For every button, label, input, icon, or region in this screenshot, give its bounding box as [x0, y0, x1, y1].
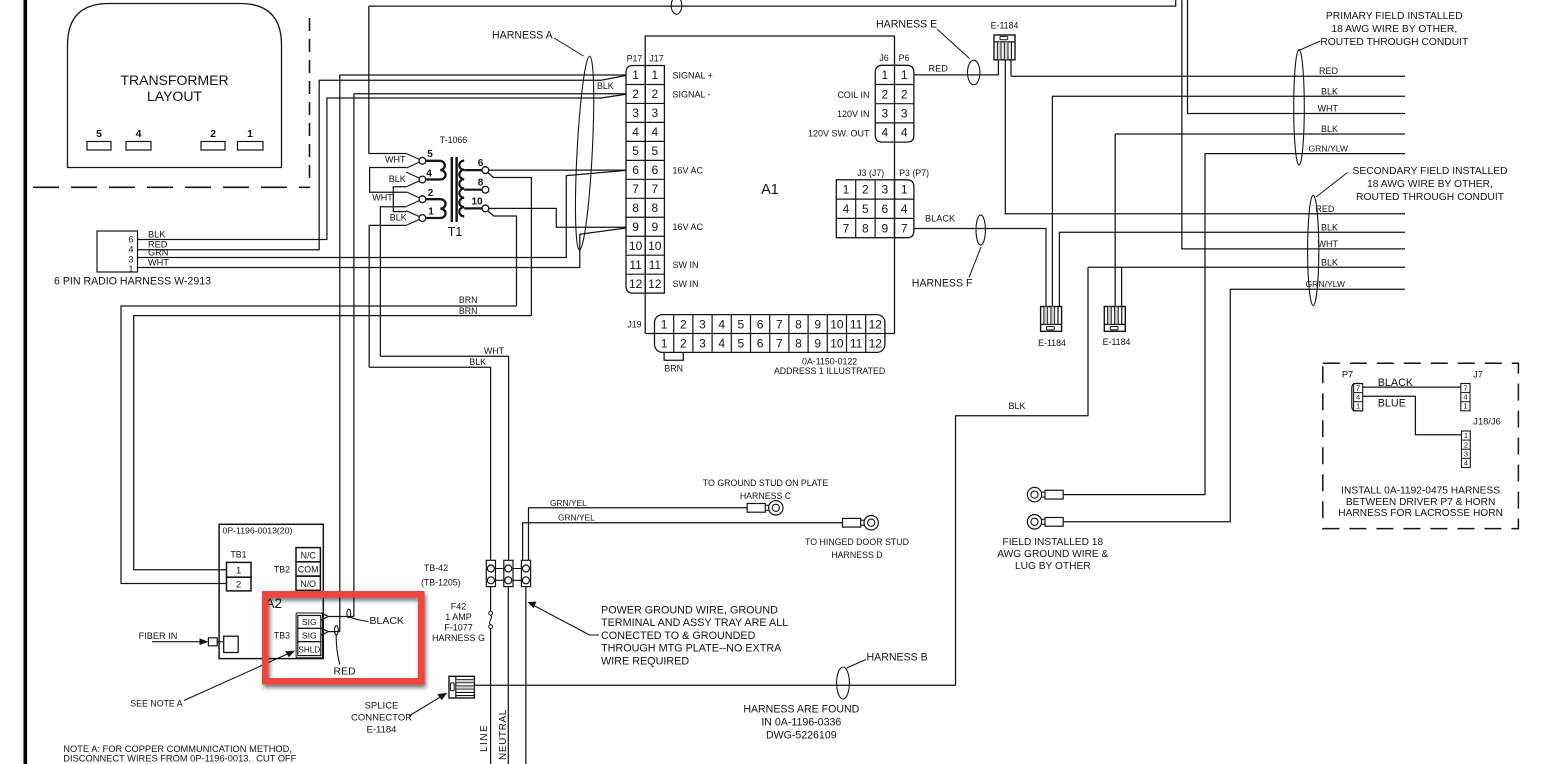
wire T1 pin10 lower to BRN riser: [488, 211, 517, 306]
svg-text:7: 7: [1463, 383, 1467, 392]
T1 core: [451, 157, 453, 222]
svg-text:2: 2: [680, 317, 687, 331]
svg-text:120V SW. OUT: 120V SW. OUT: [808, 128, 870, 138]
svg-text:3: 3: [881, 183, 888, 197]
svg-text:E-1184: E-1184: [367, 725, 397, 736]
svg-text:1: 1: [1356, 402, 1360, 411]
wire BLK primary field 2: [1115, 134, 1405, 307]
harness F oval: [976, 215, 985, 245]
svg-text:4: 4: [1356, 393, 1360, 402]
svg-text:THROUGH MTG PLATE--NO EXTRA: THROUGH MTG PLATE--NO EXTRA: [601, 643, 782, 655]
svg-text:NEUTRAL: NEUTRAL: [498, 709, 509, 760]
svg-text:5: 5: [862, 202, 869, 216]
wire BLK primary field: [1052, 96, 1405, 306]
svg-text:10: 10: [830, 336, 844, 350]
wire WHT T1 pin5 from top bus: [369, 6, 407, 153]
svg-text:GRN/YEL: GRN/YEL: [558, 513, 595, 523]
svg-text:TB2: TB2: [274, 564, 290, 574]
wire ground riser below TB-42: [525, 587, 527, 764]
svg-text:3: 3: [901, 107, 908, 121]
svg-text:18 AWG WIRE BY OTHER,: 18 AWG WIRE BY OTHER,: [1367, 179, 1493, 190]
svg-text:RED: RED: [929, 64, 949, 74]
svg-text:GRN/YEL: GRN/YEL: [550, 498, 587, 508]
svg-text:BLK: BLK: [1009, 401, 1026, 411]
svg-text:HARNESS E: HARNESS E: [876, 19, 937, 31]
svg-text:4: 4: [632, 125, 639, 139]
svg-text:J6: J6: [879, 53, 888, 63]
svg-text:BLK: BLK: [597, 81, 614, 91]
svg-text:6: 6: [757, 336, 764, 350]
svg-text:BLK: BLK: [469, 357, 486, 367]
module A2 box 0P-1196-0013: [219, 524, 323, 658]
svg-text:7: 7: [632, 182, 639, 196]
svg-text:7: 7: [901, 221, 908, 235]
dashed partition line vertical: [309, 18, 311, 183]
transformer slot 2: [201, 142, 225, 151]
svg-text:WHT: WHT: [1318, 239, 1339, 249]
svg-text:2: 2: [1464, 440, 1468, 449]
svg-text:3: 3: [651, 106, 658, 120]
svg-text:GRN/YLW: GRN/YLW: [1309, 144, 1349, 154]
svg-text:WHT: WHT: [372, 192, 393, 202]
svg-text:11: 11: [850, 336, 863, 350]
svg-text:2: 2: [210, 128, 216, 140]
svg-text:12: 12: [869, 336, 883, 350]
wire GRN/YLW primary field: [1064, 154, 1405, 495]
module A1 outline: [645, 36, 894, 334]
svg-text:WHT: WHT: [385, 155, 406, 165]
dashed partition line horizontal: [33, 186, 310, 188]
top bus wire to off-sheet: [369, 0, 1176, 6]
svg-text:120V IN: 120V IN: [837, 109, 870, 119]
ground lug harness D: [843, 518, 861, 527]
svg-text:9: 9: [651, 220, 658, 234]
svg-text:1: 1: [1463, 402, 1467, 411]
svg-text:WHT: WHT: [1318, 104, 1339, 114]
wire SIG1 to riser: [328, 616, 354, 618]
svg-text:1: 1: [661, 336, 668, 350]
svg-text:FIBER IN: FIBER IN: [139, 631, 178, 641]
svg-text:3: 3: [699, 336, 706, 350]
wire P17-2 to TB3 SIG riser: [354, 94, 626, 617]
wire GRN/YLW secondary field: [1064, 289, 1405, 522]
svg-text:6: 6: [651, 163, 658, 177]
svg-text:7: 7: [1356, 383, 1360, 392]
wire T1 pin6 to P17-6: [489, 169, 626, 171]
svg-text:J19: J19: [627, 320, 641, 330]
jumper BRN on J19 pins 1-2: [664, 352, 683, 360]
svg-text:A1: A1: [761, 182, 779, 198]
svg-text:3: 3: [882, 107, 889, 121]
wire BRN 2 to TB1-1: [134, 316, 532, 570]
svg-text:(TB-1205): (TB-1205): [421, 578, 461, 588]
svg-text:9: 9: [814, 317, 821, 331]
T1 primary winding 2-1: [426, 199, 446, 218]
svg-text:8: 8: [651, 201, 658, 215]
harness B oval: [837, 667, 850, 699]
svg-text:BLK: BLK: [389, 174, 406, 184]
drawing sheet border: [24, 0, 28, 764]
svg-text:DISCONNECT WIRES FROM 0P-1196-: DISCONNECT WIRES FROM 0P-1196-0013. CUT …: [63, 753, 296, 763]
svg-text:GRN/YLW: GRN/YLW: [1306, 279, 1346, 289]
svg-text:RED: RED: [334, 666, 357, 678]
TB3 SIG1 fork terminal: [321, 613, 328, 616]
svg-text:F-1077: F-1077: [444, 623, 473, 633]
T1 secondary winding: [459, 161, 464, 217]
connector J19: [663, 315, 885, 334]
wire RED primary field: [1011, 75, 1405, 77]
splice connector E-1184 top: [994, 35, 1015, 60]
svg-text:1: 1: [128, 264, 133, 274]
connector J6/P6: [875, 65, 894, 142]
svg-text:P17: P17: [627, 54, 643, 64]
svg-text:5: 5: [738, 336, 745, 350]
wire P17-1 to TB3 SIG riser: [340, 75, 626, 632]
svg-text:SPLICE: SPLICE: [365, 701, 399, 712]
svg-text:AWG GROUND WIRE &: AWG GROUND WIRE &: [997, 549, 1108, 560]
svg-text:TB1: TB1: [230, 550, 246, 560]
svg-text:WHT: WHT: [148, 258, 169, 268]
svg-text:BLK: BLK: [390, 213, 407, 223]
wire RED from P6-1: [914, 74, 999, 76]
svg-text:2: 2: [901, 87, 908, 101]
svg-text:4: 4: [1464, 459, 1468, 468]
svg-text:BRN: BRN: [664, 364, 683, 374]
svg-text:IN 0A-1196-0336: IN 0A-1196-0336: [761, 717, 841, 729]
svg-text:2: 2: [632, 87, 639, 101]
svg-text:LUG BY OTHER: LUG BY OTHER: [1015, 561, 1091, 572]
svg-text:9: 9: [632, 220, 639, 234]
wire BLK T1 pin1 down to A2: [369, 225, 406, 367]
svg-text:CONNECTOR: CONNECTOR: [351, 713, 412, 724]
svg-text:11: 11: [649, 258, 662, 272]
harness E pointer: [937, 29, 970, 59]
svg-text:1: 1: [1464, 431, 1468, 440]
svg-text:1 AMP: 1 AMP: [445, 612, 472, 622]
svg-text:PRIMARY FIELD INSTALLED: PRIMARY FIELD INSTALLED: [1326, 11, 1463, 22]
svg-text:5: 5: [738, 317, 745, 331]
ground lug field installed 1: [1027, 487, 1041, 501]
svg-text:SHLD: SHLD: [298, 645, 320, 654]
splice connector E-1184 bottom: [449, 676, 474, 698]
svg-text:18 AWG WIRE BY OTHER,: 18 AWG WIRE BY OTHER,: [1331, 24, 1457, 35]
svg-text:1: 1: [882, 68, 889, 82]
svg-text:10: 10: [830, 317, 844, 331]
svg-text:WHT: WHT: [484, 346, 505, 356]
connector J3(J7)/P3(P7): [836, 180, 894, 238]
svg-text:16V AC: 16V AC: [673, 165, 704, 175]
svg-text:4: 4: [882, 126, 889, 140]
T1 pin 1 terminal: [406, 211, 419, 217]
svg-text:HARNESS C: HARNESS C: [740, 491, 792, 501]
T1 pin 10 terminal: [482, 205, 489, 212]
wire BLACK harness F: [914, 229, 1046, 307]
svg-text:SW IN: SW IN: [673, 260, 699, 270]
svg-text:7: 7: [651, 182, 658, 196]
svg-text:BLK: BLK: [148, 230, 166, 240]
wire LINE below TB-42 with fuse F42: [490, 587, 492, 612]
wire RED secondary field: [1005, 213, 1405, 215]
svg-text:6: 6: [881, 202, 888, 216]
svg-text:WIRE REQUIRED: WIRE REQUIRED: [601, 655, 689, 667]
svg-text:4: 4: [843, 202, 850, 216]
transformer slot 4: [126, 142, 151, 151]
svg-text:8: 8: [795, 336, 802, 350]
harness E oval: [968, 60, 980, 85]
svg-text:COM: COM: [298, 565, 319, 575]
terminal block TB-42: [486, 560, 495, 586]
svg-text:E-1184: E-1184: [991, 21, 1019, 31]
wire GRN/YEL harness C: [529, 508, 748, 561]
T1 primary winding 5-4: [426, 161, 446, 180]
svg-text:7: 7: [843, 221, 850, 235]
wire BLK radio to P17-2: [138, 94, 627, 239]
svg-text:12: 12: [869, 317, 883, 331]
svg-text:1: 1: [632, 68, 639, 82]
svg-text:12: 12: [648, 277, 662, 291]
svg-text:6 PIN RADIO HARNESS W-2913: 6 PIN RADIO HARNESS W-2913: [54, 276, 211, 288]
svg-text:4: 4: [1463, 393, 1467, 402]
svg-text:BRN: BRN: [459, 306, 478, 316]
svg-text:1: 1: [661, 317, 668, 331]
wire RED radio to P17-1: [138, 76, 627, 250]
svg-text:P6: P6: [899, 53, 910, 63]
svg-text:4: 4: [718, 336, 725, 350]
svg-text:N/C: N/C: [301, 550, 317, 560]
wire BLUE P7 to J18: [1363, 396, 1462, 435]
svg-text:BLUE: BLUE: [1378, 398, 1406, 410]
wire NEUTRAL below TB-42: [507, 587, 509, 764]
primary field oval: [1294, 50, 1305, 166]
svg-text:TRANSFORMER: TRANSFORMER: [120, 72, 228, 88]
svg-text:GRN: GRN: [148, 248, 168, 258]
svg-text:F42: F42: [451, 602, 467, 612]
wire WHT T1 to NEUTRAL riser: [380, 356, 508, 560]
svg-text:6: 6: [757, 317, 764, 331]
svg-text:DWG-5226109: DWG-5226109: [766, 730, 837, 742]
svg-text:2: 2: [680, 336, 687, 350]
svg-text:5: 5: [651, 144, 658, 158]
svg-text:5: 5: [96, 128, 102, 140]
svg-text:RED: RED: [1319, 66, 1339, 76]
splice oval on SIG1 wire: [347, 609, 351, 618]
svg-text:TB3: TB3: [274, 631, 290, 641]
svg-text:BLACK: BLACK: [1378, 377, 1414, 389]
wire BRN 1 to TB1-2: [121, 306, 517, 584]
svg-text:1: 1: [247, 128, 253, 140]
E-1184 pair right leg tap: [1121, 267, 1123, 306]
splice oval on SIG2 wire: [335, 626, 339, 635]
6 pin radio harness W-2913 connector: [97, 231, 138, 272]
wire BLK secondary field 2: [1088, 266, 1405, 268]
wire WHT radio to T1/P17-9 riser: [138, 228, 627, 268]
wire BLACK P7 to J7: [1363, 386, 1461, 388]
svg-text:7: 7: [776, 336, 783, 350]
svg-text:9: 9: [814, 336, 821, 350]
wire WHT primary field: [1188, 0, 1406, 114]
svg-text:J7: J7: [1473, 370, 1483, 380]
svg-text:8: 8: [478, 178, 484, 189]
svg-text:6: 6: [128, 235, 133, 245]
svg-text:1: 1: [901, 68, 908, 82]
svg-text:1: 1: [901, 183, 908, 197]
svg-text:4: 4: [426, 169, 432, 180]
svg-text:4: 4: [718, 317, 725, 331]
svg-text:16V AC: 16V AC: [673, 222, 704, 232]
splice connector E-1184 left of pair: [1041, 307, 1062, 332]
svg-text:1: 1: [843, 183, 850, 197]
svg-text:T1: T1: [448, 225, 463, 239]
svg-text:2: 2: [882, 87, 889, 101]
transformer layout box: [68, 4, 282, 168]
T1 pin 2 terminal: [406, 192, 419, 198]
svg-text:FIELD INSTALLED 18: FIELD INSTALLED 18: [1003, 537, 1104, 548]
svg-text:SIG: SIG: [302, 617, 317, 627]
wire SIG2 to riser: [328, 631, 340, 633]
transformer slot 5: [87, 142, 111, 151]
svg-text:SIG: SIG: [302, 630, 317, 640]
transformer slot 1: [238, 142, 264, 151]
power ground arrow: [532, 605, 599, 636]
svg-text:2: 2: [862, 183, 869, 197]
wire GRN/YEL harness D: [523, 523, 843, 561]
connector P17/J17: [626, 66, 645, 294]
svg-text:HARNESS A: HARNESS A: [492, 30, 554, 42]
svg-text:BLACK: BLACK: [925, 214, 956, 224]
svg-text:BLK: BLK: [1321, 222, 1338, 232]
svg-text:4: 4: [128, 245, 133, 255]
wire BLK T1 to LINE riser: [369, 367, 490, 560]
svg-text:8: 8: [795, 317, 802, 331]
wire T1 pin10 to P17-9: [489, 208, 626, 227]
svg-text:P3 (P7): P3 (P7): [899, 168, 929, 178]
svg-text:TB-42: TB-42: [424, 563, 448, 573]
svg-text:TERMINAL AND ASSY TRAY ARE ALL: TERMINAL AND ASSY TRAY ARE ALL: [601, 617, 788, 629]
svg-text:T-1066: T-1066: [440, 135, 467, 145]
splice connector arrow: [409, 696, 442, 716]
wire BLK secondary field: [1059, 232, 1405, 306]
svg-text:BLK: BLK: [1321, 257, 1338, 267]
svg-text:TO HINGED DOOR STUD: TO HINGED DOOR STUD: [805, 537, 909, 547]
svg-text:ROUTED THROUGH CONDUIT: ROUTED THROUGH CONDUIT: [1356, 192, 1505, 203]
harness A pointer: [554, 38, 584, 56]
svg-text:4: 4: [901, 126, 908, 140]
svg-text:BRN: BRN: [459, 295, 478, 305]
harness A oval: [572, 56, 597, 251]
ground lug harness C: [747, 504, 765, 513]
svg-text:1: 1: [236, 566, 241, 577]
svg-text:TO GROUND STUD ON PLATE: TO GROUND STUD ON PLATE: [703, 478, 828, 488]
svg-text:3: 3: [699, 317, 706, 331]
svg-text:INSTALL 0A-1192-0475 HARNESS: INSTALL 0A-1192-0475 HARNESS: [1341, 486, 1500, 497]
T1 pin 4 terminal: [406, 172, 419, 178]
svg-text:J17: J17: [649, 54, 663, 64]
svg-text:E-1184: E-1184: [1103, 337, 1131, 347]
svg-text:SECONDARY FIELD INSTALLED: SECONDARY FIELD INSTALLED: [1352, 166, 1507, 177]
svg-text:2: 2: [236, 580, 241, 591]
svg-text:10: 10: [629, 239, 643, 253]
svg-text:HARNESS D: HARNESS D: [831, 550, 882, 560]
svg-text:SEE NOTE A: SEE NOTE A: [130, 699, 182, 709]
svg-text:ADDRESS 1 ILLUSTRATED: ADDRESS 1 ILLUSTRATED: [774, 366, 885, 376]
svg-text:2: 2: [651, 87, 658, 101]
wire WHT secondary field: [1182, 0, 1405, 249]
svg-text:HARNESS ARE FOUND: HARNESS ARE FOUND: [743, 704, 859, 716]
svg-text:LAYOUT: LAYOUT: [147, 88, 202, 104]
svg-text:11: 11: [850, 317, 863, 331]
wire WHT T1 pin2 down to A2: [380, 207, 406, 357]
svg-text:11: 11: [629, 258, 642, 272]
svg-text:6: 6: [632, 163, 639, 177]
ground lug field installed 2: [1027, 515, 1041, 529]
svg-text:BLK: BLK: [1321, 86, 1338, 96]
svg-text:5: 5: [427, 149, 433, 160]
svg-text:3: 3: [128, 255, 133, 265]
svg-text:8: 8: [862, 221, 869, 235]
svg-text:POWER GROUND WIRE, GROUND: POWER GROUND WIRE, GROUND: [601, 605, 778, 617]
svg-text:2: 2: [428, 188, 434, 199]
svg-text:SIGNAL +: SIGNAL +: [673, 70, 713, 80]
svg-text:SW IN: SW IN: [673, 279, 699, 289]
svg-text:E-1184: E-1184: [1038, 338, 1066, 348]
svg-text:8: 8: [632, 201, 639, 215]
svg-text:9: 9: [881, 221, 888, 235]
svg-text:HARNESS B: HARNESS B: [867, 652, 928, 664]
wire link T1 pin4 to pin1: [393, 187, 406, 212]
wire BLK riser harness B to E-1184: [474, 267, 1088, 685]
svg-text:1: 1: [428, 207, 434, 218]
svg-text:0P-1196-0013(20): 0P-1196-0013(20): [223, 526, 293, 536]
svg-text:HARNESS FOR LACROSSE HORN: HARNESS FOR LACROSSE HORN: [1338, 508, 1503, 519]
svg-text:12: 12: [629, 277, 643, 291]
harness oval on top bus: [671, 0, 682, 14]
svg-text:5: 5: [632, 144, 639, 158]
svg-text:4: 4: [901, 202, 908, 216]
wire link T1 pin5 to pin2: [370, 168, 407, 193]
T1 pin 6 terminal: [482, 167, 489, 174]
wire T1 pin6 lower to BRN riser: [488, 173, 532, 316]
svg-text:7: 7: [776, 317, 783, 331]
svg-text:J18/J6: J18/J6: [1473, 417, 1500, 427]
svg-text:LINE: LINE: [479, 724, 490, 752]
svg-text:BETWEEN DRIVER P7 & HORN: BETWEEN DRIVER P7 & HORN: [1346, 497, 1495, 508]
svg-text:HARNESS F: HARNESS F: [912, 278, 973, 290]
svg-text:10: 10: [471, 197, 483, 208]
inset dashed box: [1323, 363, 1519, 528]
wire GRN radio to T1/P17-6 riser: [138, 170, 627, 257]
svg-text:3: 3: [1464, 449, 1468, 458]
svg-text:6: 6: [478, 158, 484, 169]
svg-text:3: 3: [632, 106, 639, 120]
T1 pin 5 terminal: [406, 154, 419, 160]
svg-text:BLACK: BLACK: [370, 615, 404, 627]
svg-text:P7: P7: [1342, 370, 1353, 380]
svg-text:J3 (J7): J3 (J7): [857, 168, 884, 178]
T1 pin 8 terminal: [482, 186, 489, 193]
svg-text:4: 4: [651, 125, 658, 139]
svg-text:BLK: BLK: [1321, 124, 1338, 134]
E-1184 top legs: [997, 60, 999, 75]
svg-text:10: 10: [648, 239, 662, 253]
red highlight box: [265, 594, 421, 681]
svg-text:ROUTED THROUGH CONDUIT: ROUTED THROUGH CONDUIT: [1320, 37, 1469, 48]
svg-text:4: 4: [136, 128, 142, 140]
svg-text:CONECTED TO & GROUNDED: CONECTED TO & GROUNDED: [601, 630, 756, 642]
svg-text:HARNESS G: HARNESS G: [432, 633, 485, 643]
splice connector E-1184 right of pair: [1104, 307, 1125, 332]
TB3 SIG2 fork terminal: [321, 628, 328, 631]
secondary field oval: [1308, 195, 1319, 305]
